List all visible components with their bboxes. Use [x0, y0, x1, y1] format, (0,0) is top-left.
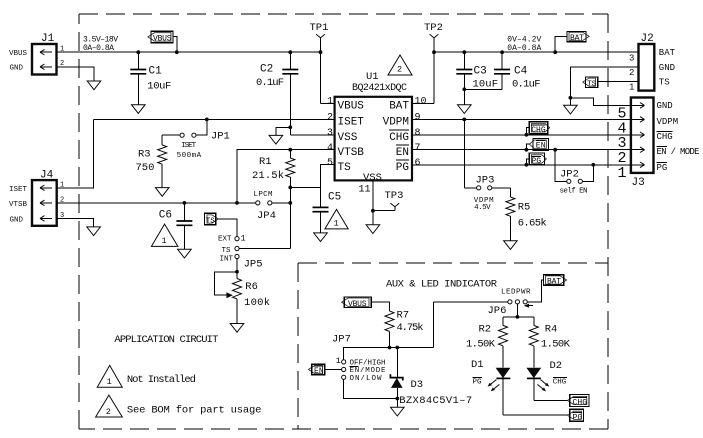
svg-text:PG: PG [531, 157, 541, 166]
svg-text:0A–0.8A: 0A–0.8A [507, 44, 541, 53]
svg-text:BAT: BAT [659, 48, 676, 58]
svg-text:R4: R4 [545, 323, 558, 335]
ground at D3 [391, 407, 405, 416]
wire BAT rail TP2 to J2.3 [434, 51, 639, 53]
jumper JP2 (self EN) [553, 148, 595, 196]
svg-text:C4: C4 [514, 65, 528, 77]
svg-text:ISET: ISET [338, 116, 365, 128]
svg-text:1: 1 [60, 181, 64, 189]
capacitor C5 [313, 192, 342, 242]
U1 pin numbers left [327, 97, 333, 169]
svg-text:ISET: ISET [9, 186, 28, 194]
svg-text:1.50K: 1.50K [466, 339, 496, 351]
svg-text:6.65k: 6.65k [518, 218, 547, 230]
wire CHG row U1.8 to J3.3 [412, 134, 631, 136]
svg-text:R3: R3 [138, 149, 151, 161]
svg-text:2: 2 [629, 68, 634, 78]
note triangle 1 at C5 [325, 209, 348, 229]
svg-text:EN/MODE: EN/MODE [350, 367, 386, 375]
svg-text:R6: R6 [245, 281, 258, 293]
svg-text:J3: J3 [632, 177, 645, 189]
resistor R5 [506, 188, 547, 241]
svg-text:10: 10 [415, 97, 427, 108]
net flag PG (aux out) [567, 409, 583, 422]
svg-text:1: 1 [617, 165, 626, 182]
net flag VBUS (aux) [342, 297, 390, 311]
svg-text:APPLICATION CIRCUIT: APPLICATION CIRCUIT [114, 334, 218, 346]
resistor R6 [233, 279, 271, 324]
svg-text:EXT: EXT [218, 235, 232, 243]
svg-text:4.5V: 4.5V [474, 204, 491, 212]
resistor R3 [136, 135, 167, 187]
svg-text:PG: PG [657, 163, 668, 173]
wire JP6.2 to R2/R4 [503, 304, 534, 326]
svg-text:21.5k: 21.5k [252, 170, 284, 182]
svg-text:VTSB: VTSB [9, 201, 28, 209]
svg-text:ON/LOW: ON/LOW [350, 375, 382, 383]
svg-text:CHG: CHG [531, 126, 546, 135]
connector J2 [629, 33, 676, 93]
capacitor C3 [456, 50, 498, 105]
svg-text:TS: TS [222, 247, 232, 255]
svg-text:1: 1 [629, 83, 634, 93]
svg-text:C2: C2 [260, 63, 273, 75]
wire VTSB row J4.2 to JP4 [57, 202, 256, 204]
wire TP2 riser to U1 BAT pin10 [412, 102, 434, 104]
wire C2 bottom to U1 VSS pin3 [290, 134, 334, 136]
svg-text:JP2: JP2 [560, 168, 579, 180]
svg-text:BQ2421xDQC: BQ2421xDQC [352, 83, 407, 94]
test point TP1 [310, 22, 329, 103]
IC U1 BQ2421xDQC charger [335, 71, 412, 180]
test point TP2 [424, 22, 443, 103]
net flag BAT (aux) [544, 275, 567, 287]
svg-text:CHG: CHG [389, 132, 409, 144]
svg-text:LPCM: LPCM [254, 191, 273, 199]
wire J3.5 GND link [570, 98, 631, 106]
svg-text:GND: GND [659, 63, 675, 73]
wire R1 bottom to TS riser [288, 186, 320, 190]
jumper JP1 [162, 118, 230, 160]
svg-text:3: 3 [629, 53, 634, 63]
resistor R1 [252, 148, 295, 188]
resistor R4 [529, 323, 570, 367]
svg-text:R5: R5 [518, 202, 531, 214]
LED D2 [526, 360, 567, 401]
svg-text:TS: TS [587, 81, 596, 89]
svg-text:GND: GND [10, 217, 24, 225]
svg-text:INT: INT [220, 255, 234, 263]
svg-text:6: 6 [415, 158, 421, 169]
svg-text:5: 5 [327, 158, 333, 169]
svg-text:9: 9 [415, 113, 421, 124]
wire U1 VSS pin11 to ground [366, 180, 380, 233]
capacitor C4 [494, 50, 540, 90]
note triangle 1 legend [97, 365, 196, 387]
svg-text:ISET: ISET [181, 142, 196, 150]
wire D2 to CHG flag [534, 400, 568, 402]
svg-text:BAT: BAT [570, 34, 584, 43]
net flag BAT (top) [553, 31, 589, 54]
svg-text:1: 1 [107, 377, 112, 387]
svg-text:2: 2 [106, 407, 111, 417]
resistor R7 [385, 310, 424, 348]
svg-text:CHG: CHG [657, 132, 673, 142]
svg-text:750: 750 [136, 162, 155, 174]
wire riser R1 bottom through JP4 to JP5 TS [289, 187, 291, 248]
net flag VBUS (top) [148, 31, 179, 54]
svg-text:11: 11 [359, 185, 371, 196]
wire JP7.1 up to R7/D3 node [344, 346, 434, 360]
svg-text:2: 2 [327, 113, 333, 124]
svg-text:D3: D3 [411, 379, 424, 391]
wire EN row U1.7 to J3.2 [412, 149, 631, 151]
svg-text:EN: EN [396, 147, 409, 159]
svg-text:1: 1 [241, 234, 246, 244]
svg-text:VSS: VSS [338, 132, 358, 144]
svg-text:TP2: TP2 [424, 22, 443, 34]
svg-text:R2: R2 [479, 323, 492, 335]
svg-text:7: 7 [415, 143, 421, 154]
jumper JP3 with VDPM riser [462, 118, 510, 212]
svg-text:GND: GND [657, 101, 673, 111]
svg-text:PG: PG [396, 162, 409, 174]
ground branch from C2 bottom / VSS [269, 125, 292, 144]
svg-text:VDPM: VDPM [657, 117, 679, 127]
svg-text:4.75k: 4.75k [397, 322, 424, 334]
U1 pin labels left [338, 100, 365, 173]
svg-text:TS: TS [206, 217, 215, 225]
svg-text:self EN: self EN [560, 188, 588, 196]
connector J1 [9, 33, 64, 75]
wire ISET riser to J4.1 [57, 119, 94, 187]
svg-text:JP1: JP1 [211, 131, 230, 143]
svg-text:BAT: BAT [547, 278, 561, 287]
svg-text:PG: PG [473, 379, 483, 387]
svg-text:C3: C3 [474, 65, 487, 77]
svg-text:500mA: 500mA [177, 152, 202, 160]
wire C3/C4 common ground node [458, 87, 503, 113]
svg-text:AUX & LED INDICATOR: AUX & LED INDICATOR [386, 278, 498, 290]
svg-text:C5: C5 [328, 192, 341, 204]
svg-text:VBUS: VBUS [9, 50, 28, 58]
zener diode D3 BZX84C5V1-7 [390, 348, 472, 408]
svg-text:CHG: CHG [573, 399, 588, 408]
svg-text:0.1uF: 0.1uF [512, 79, 541, 91]
svg-text:8: 8 [415, 128, 421, 139]
svg-text:3: 3 [327, 128, 333, 139]
net flag CHG (mid row) [525, 122, 550, 137]
svg-text:2: 2 [397, 65, 402, 75]
capacitor C6 [159, 201, 193, 258]
svg-text:JP4: JP4 [257, 210, 276, 222]
svg-text:C6: C6 [159, 209, 172, 221]
connector J4 [9, 170, 64, 226]
svg-text:TP3: TP3 [385, 190, 404, 202]
svg-text:VBUS: VBUS [153, 34, 172, 43]
jumper JP6 LEDPWR [434, 280, 544, 348]
svg-text:R1: R1 [259, 156, 272, 168]
wire ISET row U1.2 [94, 118, 335, 120]
ground at J1.2 [87, 81, 101, 90]
net flag TS (at J2) [583, 77, 639, 89]
ground at J4.3 [87, 227, 101, 236]
svg-text:JP6: JP6 [488, 305, 507, 317]
svg-text:LEDPWR: LEDPWR [501, 289, 531, 297]
U1 pin numbers right [415, 97, 427, 169]
svg-text:D2: D2 [550, 360, 563, 372]
svg-text:VTSB: VTSB [338, 147, 365, 159]
svg-text:See BOM for part usage: See BOM for part usage [127, 405, 262, 417]
wire VTSB riser U1.4 [237, 150, 335, 203]
svg-text:TP1: TP1 [310, 22, 329, 34]
wire TS riser U1.5 to C5 [321, 165, 335, 208]
wiper arm into R6 [215, 272, 237, 298]
svg-text:100k: 100k [244, 297, 270, 309]
wire TP1 riser to U1 VBUS pin1 [321, 102, 335, 104]
wire JP7.3 to D3 anode rail [344, 379, 399, 400]
connector J3 [617, 98, 653, 190]
svg-text:VDPM: VDPM [383, 116, 409, 128]
svg-text:PG: PG [573, 413, 583, 422]
note triangle 1 at C6 [151, 224, 178, 246]
wire JP5 INT pin down [236, 259, 238, 279]
svg-text:CHG: CHG [553, 379, 567, 387]
net flag EN (aux) [308, 364, 341, 376]
svg-text:1.50K: 1.50K [541, 339, 571, 351]
wire PG row U1.6 to J3.1 [412, 164, 631, 166]
svg-text:4: 4 [327, 143, 333, 154]
svg-text:TS: TS [659, 77, 670, 87]
svg-text:1: 1 [334, 219, 339, 229]
wire VDPM row U1.9 to J3.4 [412, 118, 631, 120]
battery rating text [507, 35, 541, 53]
wire J2.2 GND to ground [564, 67, 639, 114]
svg-text:BZX84C5V1–7: BZX84C5V1–7 [399, 395, 472, 407]
AUX & LED INDICATOR section dashed box [298, 263, 608, 429]
svg-text:EN: EN [536, 142, 546, 151]
jumper JP5 (EXT/TS/INT) [218, 234, 263, 271]
svg-text:R7: R7 [397, 310, 410, 322]
wire J1.2 to ground [57, 67, 95, 81]
capacitor C2 [256, 50, 298, 135]
net flag CHG (aux out) [567, 395, 589, 408]
svg-text:EN: EN [314, 367, 324, 376]
capacitor C1 [130, 50, 171, 113]
wire D1 to PG flag [503, 414, 567, 416]
wire J4.3 to ground [57, 218, 94, 227]
outer dashed border [79, 14, 608, 429]
svg-text:0.1uF: 0.1uF [256, 77, 284, 89]
wire JP5 TS pin to riser [239, 248, 290, 250]
svg-text:VBUS: VBUS [338, 100, 365, 112]
wire VBUS rail J1.1 to TP1 [57, 51, 321, 53]
test point TP3 [373, 190, 404, 211]
svg-text:10uF: 10uF [147, 81, 171, 93]
svg-text:C1: C1 [149, 65, 163, 77]
svg-text:JP5: JP5 [244, 259, 263, 271]
svg-text:1: 1 [327, 97, 333, 108]
note triangle 2 legend [96, 395, 262, 417]
resistor R2 [466, 323, 508, 367]
net flag PG (mid row) [525, 153, 547, 167]
svg-text:TS: TS [338, 162, 352, 174]
U1 pin labels right [383, 100, 410, 173]
note triangle 2 at U1 [388, 55, 412, 75]
svg-text:BAT: BAT [389, 100, 409, 112]
net flag EN (mid row) [525, 139, 549, 152]
input rating text [83, 35, 118, 53]
svg-text:D1: D1 [471, 359, 484, 371]
U1 pin VSS 11 bottom label [359, 172, 382, 196]
ground at R6 [230, 324, 244, 333]
jumper JP4 [254, 191, 293, 222]
jumper JP7 (OFF/EN/ON) [332, 334, 386, 384]
svg-text:1: 1 [162, 236, 167, 246]
svg-text:10uF: 10uF [473, 79, 499, 91]
svg-text:0A–0.8A: 0A–0.8A [83, 44, 114, 53]
LED D1 [471, 359, 510, 415]
net flag TS (at JP5) [205, 213, 238, 236]
svg-text:GND: GND [10, 64, 24, 72]
svg-text:EN / MODE: EN / MODE [657, 147, 700, 157]
svg-text:Not Installed: Not Installed [127, 374, 196, 386]
svg-text:VBUS: VBUS [348, 300, 367, 309]
ground at R5 [504, 241, 518, 250]
svg-text:JP3: JP3 [476, 175, 495, 187]
svg-text:JP7: JP7 [332, 334, 351, 346]
svg-text:U1: U1 [366, 71, 379, 83]
ground at R3 [155, 188, 169, 197]
J3 pin labels [657, 101, 700, 173]
svg-text:1: 1 [336, 356, 341, 366]
